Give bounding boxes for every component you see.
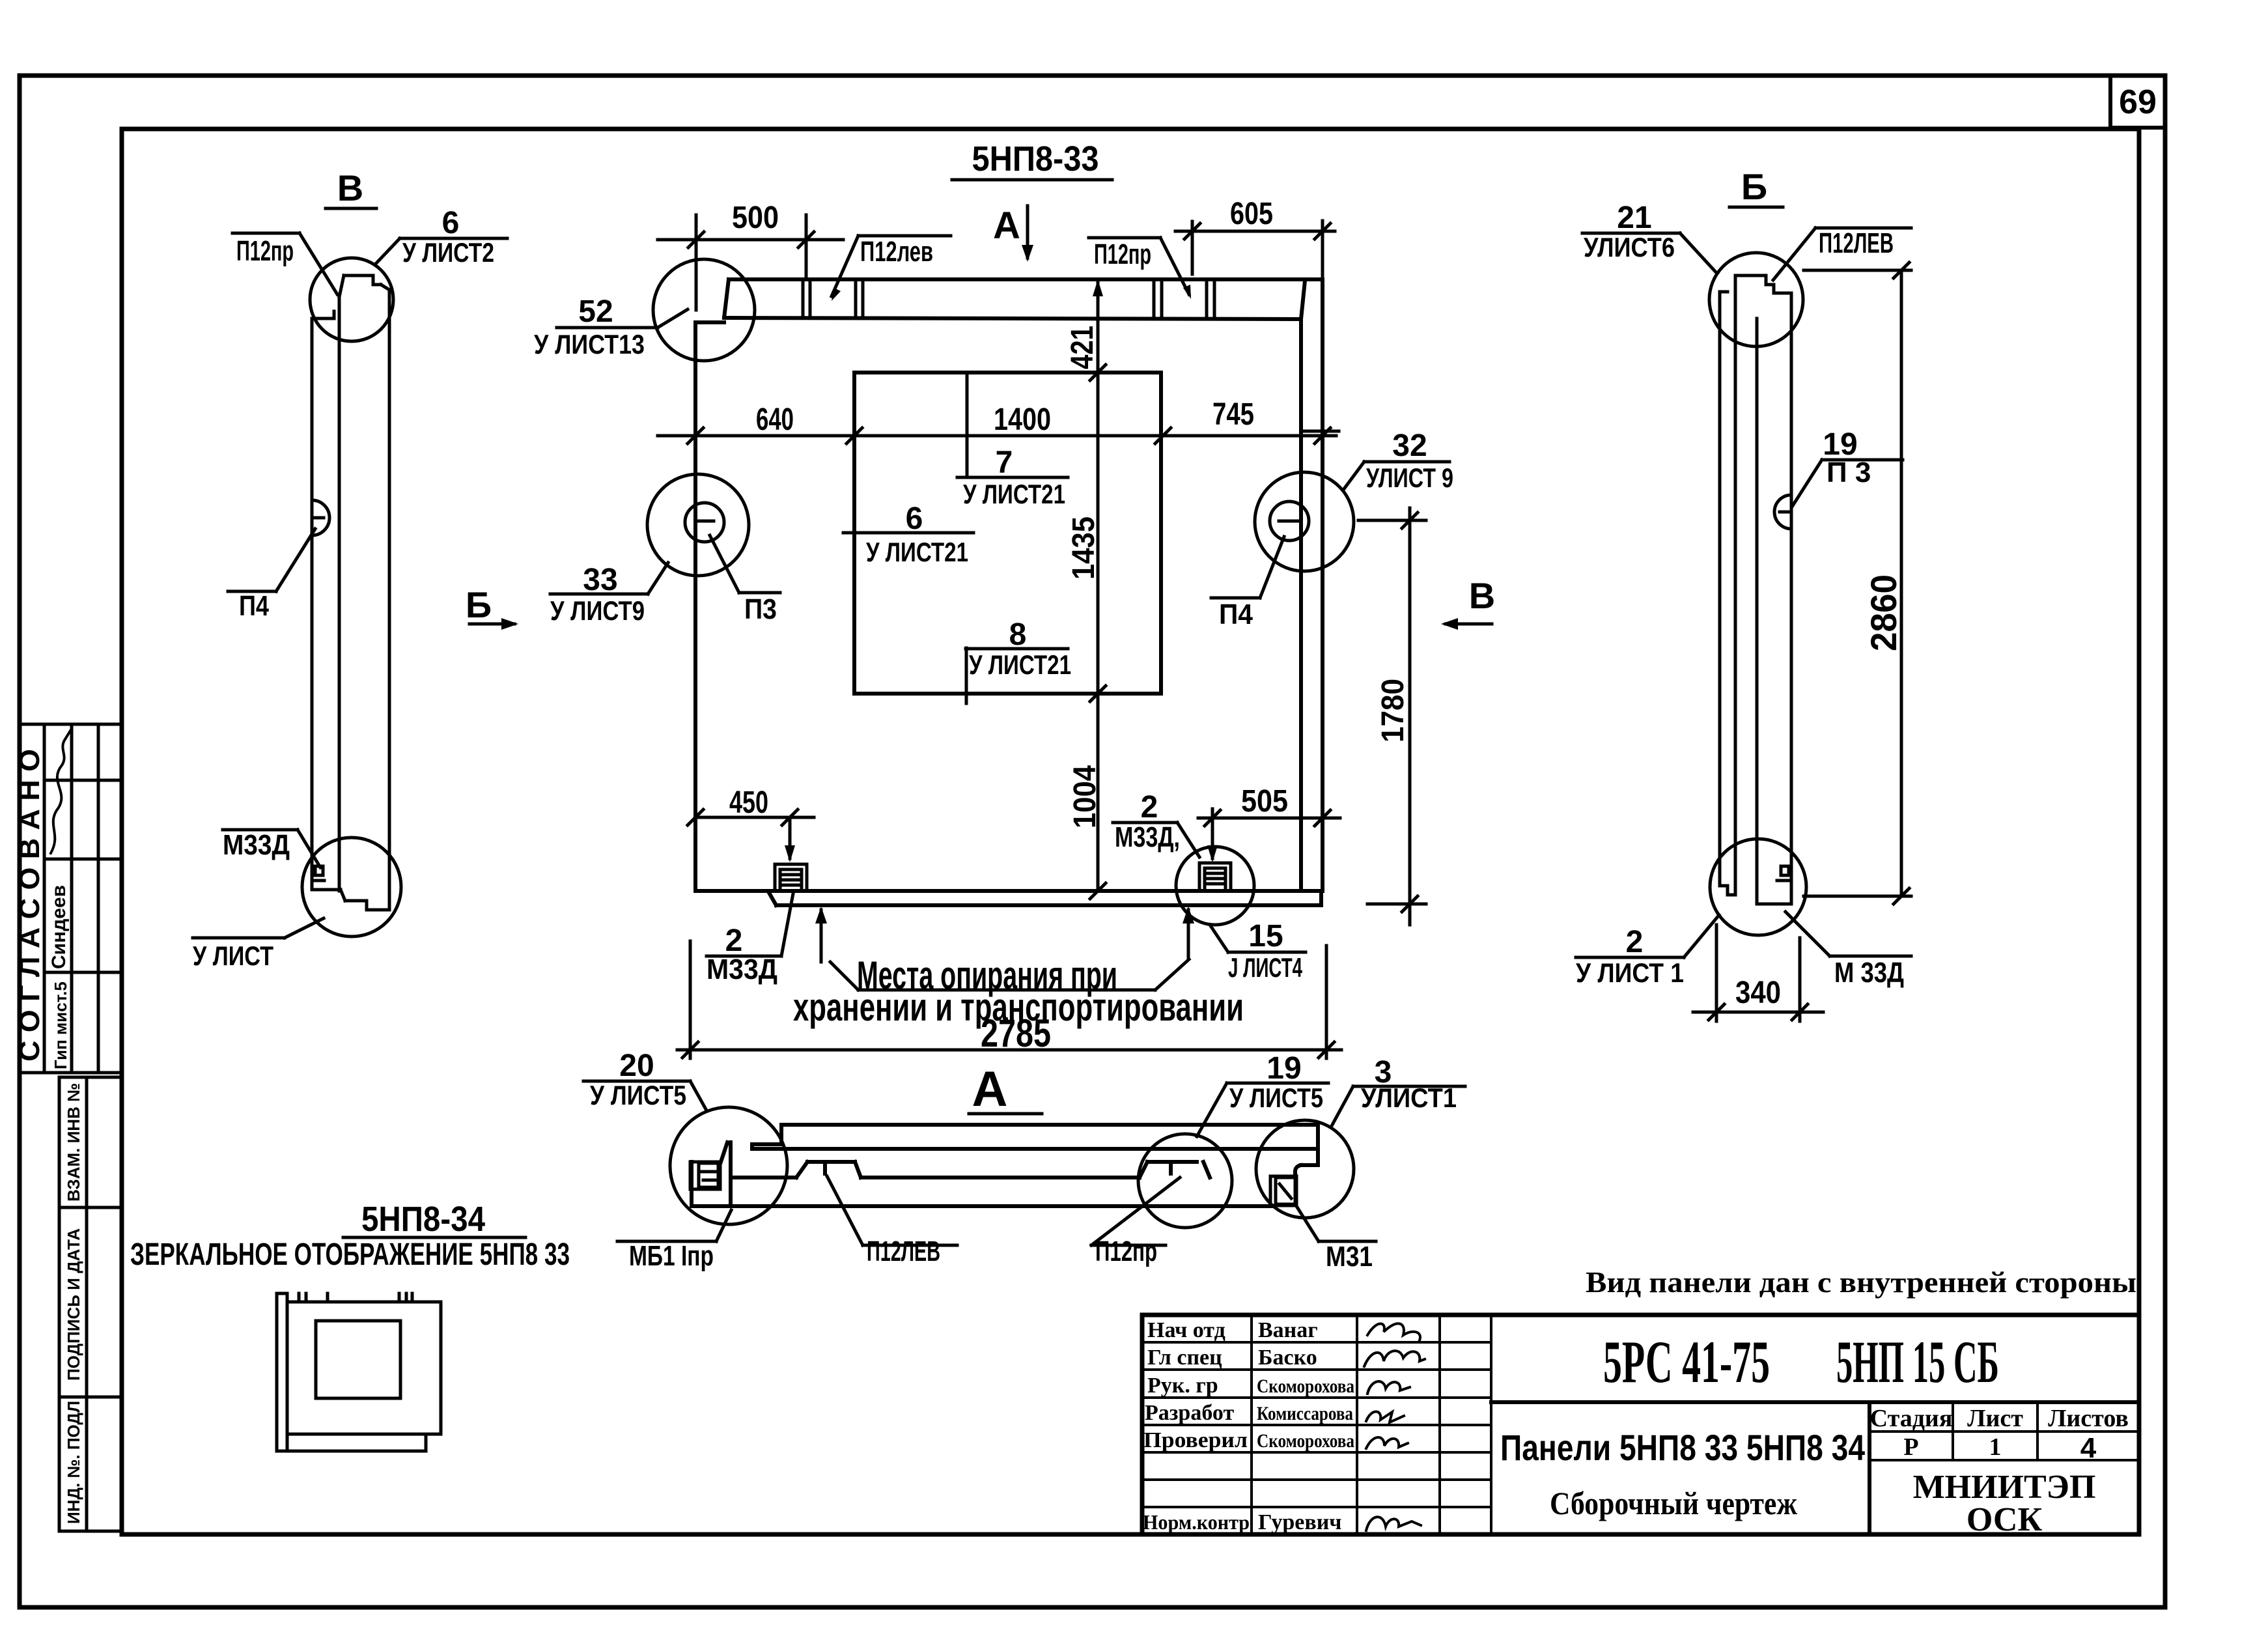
callout circle П4 (right, 32/УЛИСТ9) xyxy=(1255,472,1354,571)
svg-text:У ЛИСТ13: У ЛИСТ13 xyxy=(534,329,645,360)
label 3 / УЛИСТ1 xyxy=(1332,1055,1465,1125)
svg-text:5НП8-34: 5НП8-34 xyxy=(361,1200,485,1239)
svg-text:745: 745 xyxy=(1212,397,1254,432)
dimension 605 xyxy=(1175,197,1335,277)
window opening xyxy=(854,373,1161,694)
svg-text:П4: П4 xyxy=(239,590,269,622)
svg-text:640: 640 xyxy=(756,402,794,437)
svg-text:У ЛИСТ: У ЛИСТ xyxy=(193,940,273,971)
svg-text:340: 340 xyxy=(1735,976,1781,1010)
svg-text:Панели 5НП8 33 5НП8 34: Панели 5НП8 33 5НП8 34 xyxy=(1500,1427,1865,1468)
svg-text:500: 500 xyxy=(732,201,779,235)
svg-text:УЛИСТ 9: УЛИСТ 9 xyxy=(1366,462,1453,493)
text Места опирания при xyxy=(857,953,1117,997)
label 19 / П3 (view B) xyxy=(1792,427,1903,507)
label МБ11пр xyxy=(617,1210,731,1272)
label У ЛИСТ (view V bottom) xyxy=(193,918,324,971)
label 32 / УЛИСТ 9 xyxy=(1343,429,1453,493)
label 6 / У ЛИСТ21 (window) xyxy=(843,501,973,567)
svg-text:МНИИТЭП: МНИИТЭП xyxy=(1913,1469,2096,1506)
svg-text:ПОДПИСЬ И ДАТА: ПОДПИСЬ И ДАТА xyxy=(64,1228,83,1381)
svg-text:32: 32 xyxy=(1392,429,1427,463)
label 8 / У ЛИСТ21 (below window) xyxy=(966,617,1071,703)
М33Д anchor mark bottom left xyxy=(315,866,324,881)
svg-text:М33Д: М33Д xyxy=(707,953,777,985)
svg-text:ОСК: ОСК xyxy=(1967,1501,2043,1538)
svg-text:Норм.контр: Норм.контр xyxy=(1143,1510,1250,1534)
svg-text:Сборочный чертеж: Сборочный чертеж xyxy=(1550,1485,1798,1521)
section mark Б with arrow xyxy=(466,584,518,630)
label 15 / Ј ЛИСТ4 xyxy=(1210,919,1306,983)
callout circle section A right (М31 / 3 УЛИСТ1) xyxy=(1256,1120,1354,1218)
section A title xyxy=(969,1062,1042,1117)
svg-text:П12ЛЕВ: П12ЛЕВ xyxy=(867,1235,940,1267)
svg-text:У ЛИСТ21: У ЛИСТ21 xyxy=(866,537,968,567)
main view title 5НП8-33 xyxy=(952,139,1112,180)
svg-text:У ЛИСТ5: У ЛИСТ5 xyxy=(1229,1082,1323,1113)
svg-text:5НП8-33: 5НП8-33 xyxy=(972,139,1099,178)
label М33Д (view V) xyxy=(223,829,320,867)
svg-text:Б: Б xyxy=(1741,166,1767,207)
support block left (М33Д) xyxy=(775,864,807,891)
svg-text:Р: Р xyxy=(1903,1433,1918,1461)
svg-text:33: 33 xyxy=(583,563,617,597)
small tick on right edge at 662 xyxy=(1301,430,1339,433)
label П4 (view V) xyxy=(228,529,315,622)
svg-text:П4: П4 xyxy=(1219,599,1253,630)
svg-text:Синдеев: Синдеев xyxy=(48,885,70,969)
label П4 (main) xyxy=(1211,537,1284,630)
label 33 / У ЛИСТ9 xyxy=(550,563,668,626)
support block right (М33Д) with callout circle xyxy=(1176,847,1254,925)
svg-text:Гуревич: Гуревич xyxy=(1258,1510,1341,1534)
svg-text:УЛИСТ1: УЛИСТ1 xyxy=(1361,1082,1457,1113)
svg-text:Листов: Листов xyxy=(2048,1405,2129,1432)
svg-text:Комиссарова: Комиссарова xyxy=(1257,1403,1353,1424)
svg-text:1400: 1400 xyxy=(994,402,1051,437)
horizontal dim line 640/1400/745 xyxy=(658,397,1336,444)
note Вид панели дан с внутренней стороны xyxy=(1586,1265,2136,1299)
stage/sheet labels xyxy=(1870,1405,2129,1464)
page number box 69 xyxy=(2110,76,2165,128)
dimension 1780 xyxy=(1358,508,1426,925)
svg-text:1780: 1780 xyxy=(1376,679,1410,742)
svg-text:П 3: П 3 xyxy=(1827,457,1871,488)
svg-text:1004: 1004 xyxy=(1068,765,1102,828)
title Сборочный чертеж xyxy=(1550,1485,1798,1521)
svg-text:Рук. гр: Рук. гр xyxy=(1147,1374,1218,1398)
svg-text:605: 605 xyxy=(1230,197,1273,231)
margin box ВЗАМ ИНВ № xyxy=(59,1077,122,1207)
label М33Д (view B) xyxy=(1785,912,1911,989)
dimension 505 xyxy=(1198,784,1340,862)
title block outer xyxy=(1142,1315,2139,1534)
institute name МНИИТЭП ОСК xyxy=(1913,1469,2096,1538)
title Панели 5НП8 33 5НП8 34 xyxy=(1500,1427,1865,1468)
label 2 / У ЛИСТ 1 xyxy=(1576,915,1719,988)
svg-text:У ЛИСТ2: У ЛИСТ2 xyxy=(402,237,494,268)
svg-text:М33Д: М33Д xyxy=(223,829,290,861)
П12 slot marks in top band xyxy=(803,279,1214,318)
svg-text:421: 421 xyxy=(1065,326,1100,369)
view V title xyxy=(326,167,376,208)
label П12пр (view V) xyxy=(232,233,337,294)
svg-text:Гл спец: Гл спец xyxy=(1147,1346,1222,1370)
svg-text:УЛИСТ6: УЛИСТ6 xyxy=(1584,232,1675,262)
title block header divider xyxy=(1491,1402,2139,1534)
label П12лев (section) xyxy=(827,1176,957,1267)
label 2 / М33Д (right block) xyxy=(1113,790,1199,857)
svg-text:М31: М31 xyxy=(1326,1241,1373,1273)
label 2 / М33Д (left block) xyxy=(707,894,793,985)
dimension 340 (view B) xyxy=(1693,925,1823,1021)
label 19 / У ЛИСТ5 (section) xyxy=(1197,1051,1328,1136)
label 6 / УЛИСТ2 xyxy=(376,206,507,268)
callout circle top view B (УЛИСТ6) xyxy=(1709,253,1803,346)
callout circle section A left (МБ11пр / 20 УЛИСТ5) xyxy=(670,1107,787,1224)
svg-text:У ЛИСТ 1: У ЛИСТ 1 xyxy=(1576,957,1684,988)
view B title xyxy=(1729,166,1783,207)
svg-text:Б: Б xyxy=(466,584,492,625)
callout circle 52 (top left corner) xyxy=(653,259,755,361)
mirror title 5НП8-34 xyxy=(343,1200,525,1239)
svg-text:М33Д,: М33Д, xyxy=(1115,821,1180,853)
svg-text:505: 505 xyxy=(1241,784,1288,819)
callout circle bottom view B xyxy=(1710,839,1806,935)
svg-text:Нач отд: Нач отд xyxy=(1147,1318,1225,1342)
label 20 / У ЛИСТ5 xyxy=(583,1049,707,1110)
svg-text:Стадия: Стадия xyxy=(1870,1405,1953,1432)
signature table texts xyxy=(1143,1318,1354,1534)
left margin approval table xyxy=(14,724,122,1073)
support points arrows and bracket xyxy=(815,907,1194,990)
svg-text:5РС 41-75: 5РС 41-75 xyxy=(1603,1329,1770,1395)
margin box ИНД № ПОДЛ xyxy=(59,1397,122,1531)
svg-text:У ЛИСТ5: У ЛИСТ5 xyxy=(590,1080,686,1110)
svg-text:Баско: Баско xyxy=(1258,1346,1317,1370)
label П3 (main) xyxy=(710,535,780,625)
svg-text:М 33Д: М 33Д xyxy=(1834,957,1904,989)
signatures squiggles xyxy=(1364,1323,1425,1530)
svg-text:У ЛИСТ9: У ЛИСТ9 xyxy=(550,595,645,626)
svg-text:П3: П3 xyxy=(744,593,777,625)
svg-text:2: 2 xyxy=(1141,790,1158,825)
svg-text:Скоморохова: Скоморохова xyxy=(1257,1375,1354,1397)
section mark В with left arrow xyxy=(1441,575,1495,630)
callout circle section A middle (П12пр / 19 УЛИСТ5) xyxy=(1138,1134,1232,1228)
svg-text:В: В xyxy=(1469,575,1495,616)
svg-text:21: 21 xyxy=(1617,201,1651,235)
svg-text:А: А xyxy=(993,204,1020,247)
label П12пр (main) xyxy=(1089,238,1191,299)
svg-text:У ЛИСТ21: У ЛИСТ21 xyxy=(969,649,1071,680)
svg-text:69: 69 xyxy=(2119,83,2157,121)
svg-text:8: 8 xyxy=(1009,617,1027,652)
М33Д anchor mark bottom view B xyxy=(1777,866,1789,881)
callout circle top (УЛИСТ2) xyxy=(310,258,393,341)
svg-text:Вид панели дан с внутренней ст: Вид панели дан с внутренней стороны xyxy=(1586,1265,2136,1299)
main designation 5РС 41-75 5НП 15 СБ xyxy=(1603,1329,1999,1395)
label П12лев (view B) xyxy=(1773,227,1911,280)
svg-text:Лист: Лист xyxy=(1967,1405,2023,1432)
approval signature squiggle xyxy=(51,731,70,853)
dimension 2785 xyxy=(677,941,1341,1058)
svg-text:20: 20 xyxy=(619,1049,654,1083)
svg-text:П12пр: П12пр xyxy=(1094,238,1151,270)
svg-text:У ЛИСТ21: У ЛИСТ21 xyxy=(963,479,1065,509)
label 52 / У ЛИСТ13 xyxy=(534,294,688,360)
svg-text:В: В xyxy=(337,167,363,208)
label П12лев (main) xyxy=(832,236,951,301)
svg-text:1435: 1435 xyxy=(1067,516,1101,580)
callout circle bottom (У ЛИСТ) xyxy=(302,838,401,937)
svg-text:5НП 15 СБ: 5НП 15 СБ xyxy=(1836,1329,1999,1395)
label П12пр (section) xyxy=(1091,1178,1180,1267)
svg-text:С О Г Л А С О В А Н О: С О Г Л А С О В А Н О xyxy=(14,749,46,1062)
text хранении и транспортировании xyxy=(793,985,1244,1029)
П4 anchor bump on left edge xyxy=(312,500,329,535)
svg-text:Ванаг: Ванаг xyxy=(1258,1318,1318,1342)
П3 anchor bump on right edge of view B xyxy=(1774,495,1791,529)
svg-text:МБ1 Іпр: МБ1 Іпр xyxy=(629,1240,714,1272)
dimension 450 xyxy=(688,785,814,862)
dimension 2860 (view B) xyxy=(1804,262,1911,904)
svg-text:Скоморохова: Скоморохова xyxy=(1257,1430,1354,1452)
label 21 / УЛИСТ6 xyxy=(1582,201,1717,274)
М31 small block (right end of section) xyxy=(1270,1176,1296,1206)
svg-text:П12пр: П12пр xyxy=(236,235,294,267)
side view B panel outline xyxy=(1720,275,1791,904)
inner drawing frame xyxy=(122,129,2139,1534)
svg-text:2: 2 xyxy=(1626,925,1644,959)
section A profile outline xyxy=(692,1125,1318,1206)
svg-text:2860: 2860 xyxy=(1863,574,1904,651)
svg-text:Гип мист.5: Гип мист.5 xyxy=(51,981,70,1069)
МБ11пр small block (left end of section) xyxy=(690,1162,720,1189)
vertical dim line 421/1435/1004 xyxy=(1065,279,1106,899)
margin box ПОДПИСЬ И ДАТА xyxy=(59,1207,122,1397)
svg-text:450: 450 xyxy=(729,785,768,820)
svg-text:Разработ: Разработ xyxy=(1145,1401,1234,1425)
svg-text:2785: 2785 xyxy=(981,1011,1051,1055)
side view V panel outline xyxy=(312,275,389,910)
svg-text:1: 1 xyxy=(1989,1433,2002,1461)
svg-text:А: А xyxy=(972,1062,1008,1117)
section mark A top with down arrow xyxy=(993,204,1033,262)
svg-text:19: 19 xyxy=(1267,1051,1301,1086)
mirror note text xyxy=(130,1237,570,1272)
svg-text:Проверил: Проверил xyxy=(1143,1428,1248,1452)
svg-text:П12пр: П12пр xyxy=(1095,1235,1157,1267)
svg-text:4: 4 xyxy=(2080,1432,2097,1464)
svg-text:П12лев: П12лев xyxy=(860,236,933,268)
title block signature table grid xyxy=(1142,1315,1491,1534)
svg-text:6: 6 xyxy=(442,206,460,240)
svg-text:ВЗАМ. ИНВ №: ВЗАМ. ИНВ № xyxy=(64,1083,83,1202)
label М31 xyxy=(1296,1206,1376,1273)
stage/sheet table xyxy=(1869,1402,2139,1460)
label 7 / У ЛИСТ21 xyxy=(957,373,1068,509)
svg-text:15: 15 xyxy=(1248,919,1283,953)
svg-text:52: 52 xyxy=(578,294,613,329)
svg-text:Ј ЛИСТ4: Ј ЛИСТ4 xyxy=(1228,952,1302,983)
panel front view outline xyxy=(695,279,1323,905)
svg-text:ЗЕРКАЛЬНОЕ ОТОБРАЖЕНИЕ 5НП8 33: ЗЕРКАЛЬНОЕ ОТОБРАЖЕНИЕ 5НП8 33 xyxy=(130,1237,570,1272)
callout circle П3 (left, 33/УЛИСТ9) xyxy=(647,474,749,576)
svg-text:7: 7 xyxy=(996,445,1013,480)
svg-text:П12ЛЕВ: П12ЛЕВ xyxy=(1819,227,1894,259)
svg-text:6: 6 xyxy=(906,501,923,536)
svg-text:ИНД. №. ПОДЛ: ИНД. №. ПОДЛ xyxy=(64,1401,83,1524)
mirror panel small diagram xyxy=(277,1293,441,1451)
dimension 500 xyxy=(658,201,843,310)
